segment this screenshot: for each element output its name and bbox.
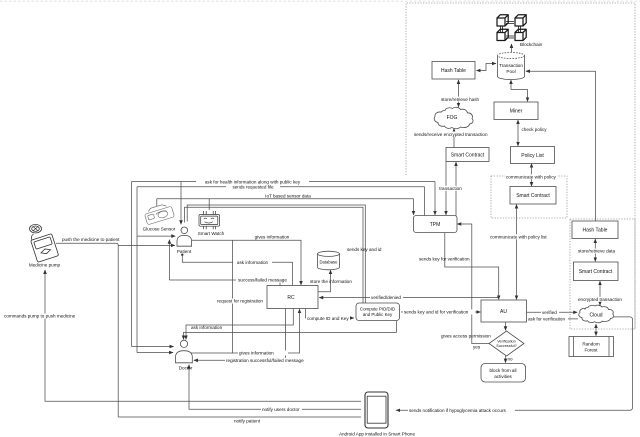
svg-text:Smart Contract: Smart Contract: [516, 193, 550, 199]
wire: sends requested file (TPM to doctor): [137, 186, 425, 188]
wire label: commands pump to push medicine: [3, 314, 76, 319]
svg-text:Doctor: Doctor: [179, 365, 193, 370]
svg-text:Medicine pump: Medicine pump: [29, 263, 61, 268]
svg-text:Transaction: Transaction: [499, 63, 523, 68]
database cylinder: [318, 254, 340, 270]
svg-text:commands pump to push medicine: commands pump to push medicine: [4, 314, 76, 319]
svg-text:ask for health information alo: ask for health information along with pu…: [205, 179, 301, 184]
wire label: request for registration: [216, 299, 266, 304]
svg-text:Android App installed in Smart: Android App installed in Smart Phone: [339, 432, 416, 437]
faint page top border: [0, 0, 640, 2]
svg-text:Smart Watch: Smart Watch: [198, 231, 225, 236]
svg-text:and Public Key: and Public Key: [363, 312, 393, 317]
wire: verified AU-cloud: [527, 311, 577, 313]
miner box: [494, 102, 538, 120]
AU box: [481, 300, 527, 322]
wire: check policy miner-policylist: [517, 120, 519, 146]
block from all activities box: [481, 364, 526, 383]
svg-text:Forest: Forest: [584, 348, 598, 353]
wire: compute ID and Key RC-computebox: [306, 309, 354, 318]
wire: store/retrieve data HT2-SC4: [594, 239, 596, 261]
wire: sends key and id for verification compute-AU: [401, 311, 480, 313]
wire: gives access permission (diamond to TPM): [457, 224, 489, 344]
TPM box: [414, 216, 458, 233]
wire: sends key and id (compute box to patient): [185, 207, 364, 303]
wire: cloud to random forest: [595, 324, 597, 335]
wire label: sends notification if hypoglycemia attack occurs: [408, 408, 515, 413]
glucose sensor icon: [143, 202, 174, 225]
svg-text:Pool: Pool: [506, 69, 515, 74]
svg-text:Verification: Verification: [497, 340, 516, 344]
cloud shape (lower right): [579, 305, 614, 323]
svg-text:store/retrieve data: store/retrieve data: [578, 249, 615, 254]
svg-text:sends notification if hypoglyc: sends notification if hypoglycemia attac…: [409, 408, 506, 413]
blockchain icon cubes: [497, 15, 526, 41]
svg-text:no: no: [508, 357, 514, 362]
wire label: ask for health information along with public key: [196, 179, 309, 184]
wire: encrypted transaction cloud-SC4: [599, 281, 601, 305]
wire: verified/denied branch to RC: [319, 297, 498, 299]
svg-text:sends key for verification: sends key for verification: [419, 257, 470, 262]
svg-text:notify patient: notify patient: [234, 418, 261, 423]
wire: sends notification if hypoglycemia attack occurs (cloud to phone): [396, 317, 632, 410]
svg-text:block from all: block from all: [489, 368, 516, 373]
wire: shared vertical patient-doctor: [231, 240, 233, 353]
wire label: gives information (doctor): [238, 351, 288, 356]
wire label: registration successful/failed message: [225, 358, 316, 363]
wire: registration successful/failed message RC-doctor: [194, 309, 285, 361]
wire label: encrypted transaction: [577, 297, 623, 302]
svg-text:gives access permission: gives access permission: [441, 333, 491, 338]
RC box: [267, 286, 318, 309]
wire: ask for health information (doctor to TPM): [132, 181, 436, 183]
svg-text:activities: activities: [494, 374, 512, 379]
wire: communicate with policy: [531, 164, 533, 186]
dashed policy smart-contract zone: [491, 176, 567, 218]
wire: communicate with policy list SC2-AU: [516, 205, 518, 300]
wire label: verified/denied: [370, 295, 403, 300]
wire: pool-miner: [511, 80, 528, 101]
wire: pool to blockchain: [511, 44, 513, 52]
wire label: communicate with policy list: [489, 234, 547, 239]
verification successful diamond: [489, 331, 524, 356]
svg-text:registration successful/failed: registration successful/failed message: [226, 358, 304, 363]
svg-text:success/failed message: success/failed message: [238, 278, 287, 283]
svg-text:Glucose Sensor: Glucose Sensor: [143, 227, 176, 232]
wire: compute box to doctor (long line): [184, 321, 397, 340]
svg-text:ask information: ask information: [191, 325, 223, 330]
wire label: communicate with policy: [505, 174, 557, 179]
svg-text:sends/receive encrypted transa: sends/receive encrypted transaction: [414, 132, 488, 137]
hash table box 2 (lower right): [572, 221, 618, 239]
svg-text:transaction: transaction: [439, 186, 462, 191]
svg-text:push the medicine to patient: push the medicine to patient: [62, 237, 120, 242]
policy list box: [511, 147, 555, 164]
svg-text:Compute PID/DID: Compute PID/DID: [360, 307, 395, 312]
wire: HashTable-TransactionPool: [477, 64, 497, 71]
svg-text:ask information: ask information: [237, 260, 269, 265]
wire: gives information doctor-RC: [191, 309, 300, 353]
wire label: store/retrieve hash: [440, 97, 480, 102]
svg-text:sends key and id for verificat: sends key and id for verification: [404, 310, 469, 315]
wire: branch into patient head: [180, 182, 182, 225]
svg-text:sends key and id: sends key and id: [347, 247, 382, 252]
transaction pool cylinder: [498, 56, 525, 80]
svg-text:Policy List: Policy List: [521, 153, 544, 159]
wire: HT2 to transaction pool: [526, 71, 596, 221]
smart contract box 1 (fog): [446, 148, 489, 162]
svg-text:communicate with policy list: communicate with policy list: [490, 235, 547, 240]
svg-text:store the information: store the information: [310, 279, 352, 284]
svg-text:gives information: gives information: [255, 234, 290, 239]
wire: push the medicine to patient: [56, 243, 118, 245]
wire: commands pump to push medicine (phone to pump): [45, 270, 361, 401]
FOG cloud: [434, 107, 473, 129]
dashed cloud zone: [570, 219, 635, 329]
wire: notify users doctor (phone to doctor): [189, 365, 361, 410]
svg-text:RC: RC: [287, 295, 295, 301]
wire label: sends requested file: [226, 184, 280, 189]
svg-text:check policy: check policy: [522, 127, 548, 132]
wire label: success/failed message: [236, 278, 289, 283]
svg-text:IoT based sensor data: IoT based sensor data: [265, 193, 311, 198]
svg-text:ask for verification: ask for verification: [528, 317, 565, 322]
wire: ask information RC-doctor: [186, 309, 293, 340]
svg-text:notify users doctor: notify users doctor: [262, 407, 300, 412]
wire label: notify users doctor: [261, 407, 302, 412]
svg-text:TPM: TPM: [430, 222, 441, 228]
smart contract box 4 (lower right): [574, 262, 619, 281]
svg-text:gives information: gives information: [239, 351, 274, 356]
svg-text:Random: Random: [582, 342, 600, 347]
dashed blockchain zone border: [406, 3, 635, 329]
svg-text:AU: AU: [500, 309, 507, 315]
wire: sends requested file branch to patient: [137, 235, 175, 237]
smart contract box 2 (policy): [510, 187, 556, 205]
compute PID/DID box: [356, 303, 400, 321]
svg-text:yes: yes: [473, 344, 481, 349]
smart watch icon: [199, 211, 220, 229]
svg-text:Blockchain: Blockchain: [520, 42, 543, 47]
patient person icon: [181, 227, 188, 234]
wire label: compute ID and Key: [306, 316, 350, 321]
wire: IoT based sensor data (sensors to TPM): [157, 198, 414, 200]
wire: transaction pair TPM/SmartContract1: [445, 162, 447, 215]
wire: ask for verification cloud-AU: [528, 318, 578, 320]
wire: notify patient (phone to patient): [118, 245, 361, 417]
smartphone icon: [365, 392, 388, 428]
wire: gives information patient-RC: [192, 240, 301, 285]
wire label: ask for verification: [527, 316, 568, 321]
svg-text:communicate with policy: communicate with policy: [506, 175, 556, 180]
wire label: verified: [541, 310, 559, 315]
wire: store/retrieve hash FOG-HashTable: [458, 80, 460, 107]
random forest box: [569, 337, 614, 357]
svg-text:Cloud: Cloud: [589, 313, 602, 319]
hash table box (top): [432, 62, 475, 80]
wire: ask information patient-RC: [181, 254, 183, 256]
svg-text:FOG: FOG: [447, 115, 458, 121]
svg-text:Patient: Patient: [177, 249, 192, 254]
doctor person icon: [180, 340, 187, 347]
wire: success/failed message RC-patient: [168, 240, 170, 280]
wire label: sends/receive encrypted transaction: [412, 132, 492, 137]
svg-text:sends requested file: sends requested file: [232, 185, 274, 190]
svg-text:Database: Database: [320, 260, 339, 265]
wire: request for registration to RC: [232, 300, 265, 302]
wire label: transaction: [438, 186, 463, 191]
svg-text:Miner: Miner: [510, 109, 523, 115]
svg-text:compute ID and Key: compute ID and Key: [307, 316, 349, 321]
svg-text:verified/denied: verified/denied: [371, 295, 401, 300]
svg-text:Successful?: Successful?: [496, 344, 516, 348]
svg-text:Smart Contract: Smart Contract: [451, 153, 485, 159]
svg-text:store/retrieve hash: store/retrieve hash: [441, 97, 479, 102]
svg-text:Hash Table: Hash Table: [441, 68, 466, 74]
svg-text:Hash Table: Hash Table: [583, 228, 608, 234]
wire: AU to diamond: [505, 322, 507, 330]
wire label: store/retrieve data: [577, 249, 617, 254]
wire: store the information RC-Database: [319, 270, 331, 292]
medicine pump icon: [30, 224, 59, 262]
svg-text:Smart Contract: Smart Contract: [579, 269, 613, 275]
svg-text:encrypted transaction: encrypted transaction: [578, 297, 622, 302]
svg-text:verified: verified: [542, 310, 557, 315]
wire: SmartContract1 to FOG: [453, 129, 455, 148]
wire: TPM sends key for verification to AU: [445, 233, 499, 299]
wire label: sends key and id for verification: [403, 310, 475, 315]
wire: diamond no to block box: [505, 356, 507, 363]
wire label: ask information (patient): [233, 260, 272, 265]
svg-text:request for registration: request for registration: [217, 299, 263, 304]
